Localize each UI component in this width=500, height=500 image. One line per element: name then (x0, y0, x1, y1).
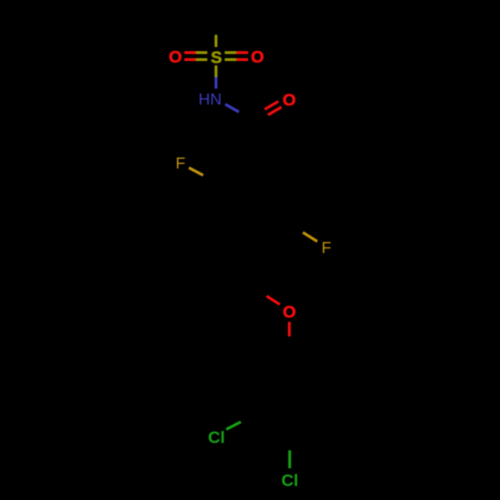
svg-text:F: F (322, 240, 332, 257)
svg-text:Cl: Cl (281, 471, 298, 490)
svg-text:O: O (283, 90, 296, 109)
svg-text:Cl: Cl (208, 428, 225, 447)
svg-text:O: O (169, 48, 182, 67)
svg-text:O: O (251, 48, 264, 67)
svg-text:F: F (176, 156, 186, 173)
svg-text:S: S (211, 48, 222, 67)
svg-text:O: O (283, 303, 296, 322)
svg-text:HN: HN (199, 92, 222, 109)
